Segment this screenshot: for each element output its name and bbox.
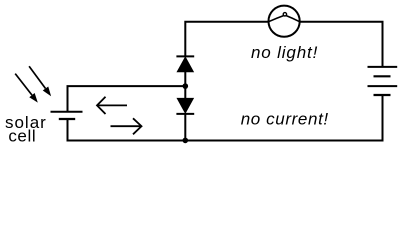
wire top rail left (node to lamp): [185, 22, 268, 57]
light arrow 2 shaft: [15, 74, 32, 96]
lamp L1 filament right curve: [286, 16, 300, 22]
diode D2 triangle (pointing down): [177, 98, 193, 113]
current arrow right shaft: [111, 125, 142, 127]
current arrow right barbs: [133, 118, 142, 134]
svg-text:cell: cell: [8, 126, 36, 145]
battery B1 plate 3 long: [368, 85, 398, 87]
diode D2 cathode bar: [176, 113, 194, 115]
svg-text:no current!: no current!: [241, 109, 329, 128]
light arrow 1 head: [43, 86, 51, 96]
wire bottom rail: [67, 140, 384, 142]
wire solar cell to node A: [68, 86, 186, 112]
svg-text:no light!: no light!: [251, 43, 318, 62]
lamp L1 circle: [269, 6, 300, 37]
diode D1 triangle (pointing up): [177, 57, 193, 72]
wire D1 to node A: [184, 72, 186, 99]
battery B1 plate 4 short: [374, 94, 391, 96]
wire top rail right (lamp to battery): [300, 22, 383, 67]
battery B1 plate 2 short: [374, 75, 391, 77]
wire D2 to bottom rail: [184, 114, 186, 141]
battery B1 plate 1 long: [368, 66, 398, 68]
wire battery bottom to bottom rail: [382, 95, 384, 141]
node A junction dot: [183, 83, 189, 89]
lamp L1 filament left curve: [269, 16, 284, 22]
node B junction dot (bottom rail): [183, 138, 189, 144]
current arrow left barbs: [97, 97, 106, 114]
current arrow left shaft: [97, 104, 127, 106]
wire solar cell to bottom rail: [67, 119, 69, 141]
solar cell plate short: [59, 118, 75, 120]
diode D1 cathode bar: [176, 55, 194, 57]
lamp L1 filament loop: [283, 13, 286, 16]
solar cell plate long: [51, 111, 83, 113]
light arrow 1 shaft: [29, 66, 45, 88]
light arrow 2 head: [29, 93, 38, 103]
